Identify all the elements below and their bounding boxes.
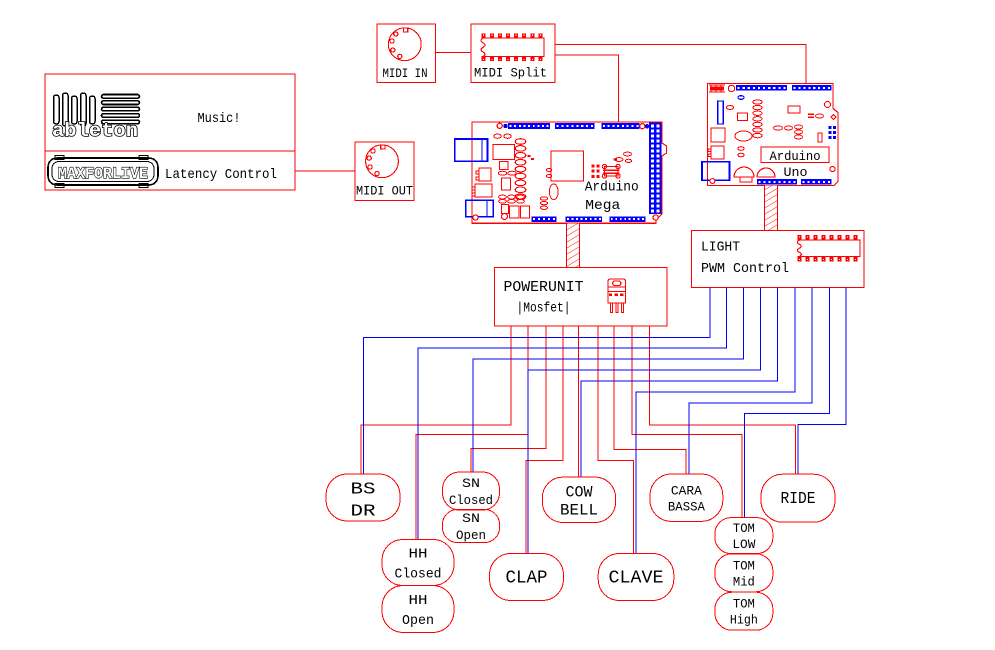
svg-text:BASSA: BASSA [668, 499, 705, 514]
svg-text:Closed: Closed [449, 494, 493, 508]
svg-text:HH: HH [409, 593, 428, 609]
svg-text:BS: BS [351, 481, 376, 500]
svg-text:CLAP: CLAP [506, 568, 548, 588]
svg-text:MIDI Split: MIDI Split [474, 66, 547, 81]
svg-text:HH: HH [409, 547, 428, 563]
svg-text:POWERUNIT: POWERUNIT [504, 279, 584, 296]
svg-text:Mid: Mid [733, 575, 755, 589]
svg-text:Open: Open [402, 613, 434, 629]
svg-text:RIDE: RIDE [781, 489, 816, 508]
svg-text:TOM: TOM [733, 598, 755, 612]
svg-text:CARA: CARA [671, 483, 702, 498]
svg-text:TOM: TOM [733, 522, 755, 536]
svg-text:COW: COW [566, 483, 594, 501]
svg-text:DR: DR [351, 503, 376, 522]
svg-text:Mega: Mega [585, 198, 620, 214]
svg-text:Closed: Closed [395, 567, 442, 583]
svg-text:Open: Open [456, 529, 486, 543]
svg-text:SN: SN [462, 512, 480, 526]
svg-text:PWM Control: PWM Control [701, 261, 789, 277]
svg-text:MIDI OUT: MIDI OUT [356, 184, 413, 199]
svg-text:TOM: TOM [733, 559, 755, 573]
svg-text:Arduino: Arduino [585, 180, 639, 196]
svg-text:Uno: Uno [784, 165, 808, 180]
svg-text:MAXFORLIVE: MAXFORLIVE [58, 165, 148, 183]
svg-text:|Mosfet|: |Mosfet| [517, 301, 571, 317]
svg-text:SN: SN [462, 477, 480, 491]
svg-text:Latency Control: Latency Control [165, 167, 277, 183]
svg-text:Arduino: Arduino [770, 149, 821, 164]
svg-text:BELL: BELL [560, 501, 598, 519]
svg-text:CLAVE: CLAVE [609, 568, 664, 588]
svg-text:MIDI IN: MIDI IN [383, 66, 428, 81]
svg-text:ableton: ableton [52, 120, 138, 142]
svg-text:LOW: LOW [732, 538, 755, 552]
svg-text:High: High [730, 614, 758, 628]
svg-text:LIGHT: LIGHT [701, 240, 740, 256]
svg-text:Music!: Music! [198, 111, 241, 127]
